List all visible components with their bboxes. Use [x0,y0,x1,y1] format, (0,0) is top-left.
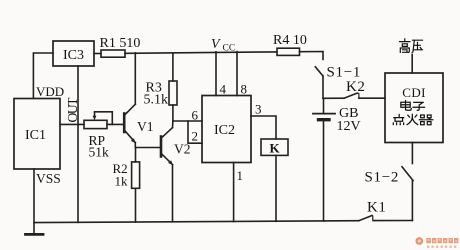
svg-text:IC3: IC3 [63,48,84,63]
transistor V1 [124,104,136,143]
svg-text:2: 2 [192,129,199,144]
battery GB [313,98,335,221]
transistor V2 [161,128,173,166]
wire V2 emitter to bottom rail [172,165,174,222]
svg-text:4: 4 [220,82,227,97]
svg-text:V1: V1 [137,119,154,134]
svg-text:3: 3 [255,102,262,117]
label dianzi (电子) [401,101,425,111]
wire RP right to V1 base [107,123,124,125]
svg-text:6: 6 [192,108,199,123]
switch S1-1 [315,67,323,76]
relay contact K2 [344,93,359,98]
wire emitter node to V2 base [135,147,160,149]
svg-text:R4 10: R4 10 [273,33,307,48]
svg-text:K1: K1 [367,200,387,216]
svg-text:1k: 1k [115,174,129,189]
svg-text:S1−2: S1−2 [365,170,400,186]
wire IC1 VSS to bottom rail [33,169,35,223]
svg-text:IC2: IC2 [214,123,235,138]
CDI igniter box [385,73,443,143]
wire K2 left segment [323,97,344,99]
resistor R1 [101,50,125,57]
IC3 U3 box [53,41,94,66]
svg-text:1: 1 [237,168,244,183]
svg-text:VSS: VSS [36,171,61,186]
wire IC3 left to VDD node [33,53,53,98]
wire S1-1 to K2 node [322,76,324,98]
wire IC3 bottom vertical to bottom rail [77,66,79,222]
svg-text:R1 510: R1 510 [100,36,141,51]
label gaoya (高压) high voltage [400,39,423,53]
wire top rail [125,52,277,53]
svg-text:51k: 51k [89,145,110,160]
label dianhuoqi (点火器) [393,114,433,124]
wire gaoya to CDI top [411,55,413,74]
switch S1-2 [402,167,413,181]
svg-text:CDI: CDI [402,85,426,100]
wire pin2 stub [188,121,202,143]
wire pin4 to top rail [215,52,217,96]
relay contact K1 [359,215,373,220]
svg-text:12V: 12V [337,119,361,134]
wire K to bottom rail [275,155,277,221]
wire V1 emitter to node [134,143,136,148]
resistor R3 [169,53,177,121]
svg-text:K: K [270,141,281,156]
svg-text:8: 8 [241,82,248,97]
IC1 U1 box [14,99,60,170]
wire CDI bottom to S1-2 [411,143,413,164]
wire bottom rail right segment [373,220,412,222]
wire top rail right of R4 to corner [300,52,324,60]
wire V1 collector to top rail [134,53,136,104]
svg-text:IC1: IC1 [25,128,46,143]
svg-text:CC: CC [223,44,236,54]
wire K2 right segment to CDI [359,97,385,99]
svg-text:VDD: VDD [36,84,64,99]
node R3/V2/pin6 junction [173,120,202,122]
wire S1-2 down to bottom rail corner [411,181,413,221]
resistor R4 [277,48,300,55]
wire bottom rail left segment [34,221,359,223]
ground [26,223,44,235]
label Vcc [211,37,235,54]
wire pin8 to top rail [236,52,238,96]
wire pin3 to relay K [251,116,276,139]
wire IC3 right to R1 [94,53,101,55]
svg-text:V: V [211,37,221,52]
relay coil K box [261,139,288,155]
wire pin1 to bottom rail [233,163,235,222]
wire IC1 OUT pin [60,123,84,125]
resistor R2 [132,148,140,223]
watermark logo [415,237,458,248]
svg-text:K2: K2 [346,79,366,95]
potentiometer RP [84,112,112,129]
wire V2 collector to R3 node [172,121,174,128]
IC2 U2 box [202,96,251,163]
svg-text:5.1k: 5.1k [144,93,169,108]
